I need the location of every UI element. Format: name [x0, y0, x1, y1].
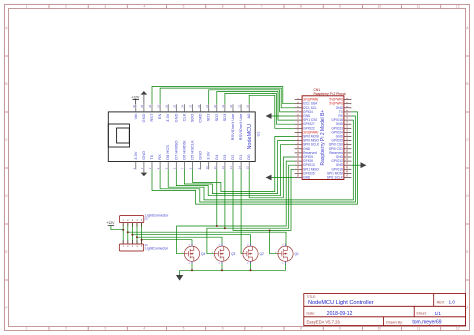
ground RPi pin9	[266, 113, 295, 119]
svg-text:RX: RX	[157, 154, 162, 160]
NodeMCU pin numbers	[132, 104, 249, 169]
svg-text:GND: GND	[173, 113, 178, 122]
svg-text:B: B	[466, 82, 468, 86]
wire NodeMCU D0 to RPi GPIO5	[249, 157, 294, 198]
svg-text:1: 1	[26, 5, 28, 9]
svg-text:Sheet:: Sheet:	[416, 312, 426, 316]
svg-text:SPI1 SCLK: SPI1 SCLK	[327, 176, 344, 180]
svg-text:D3: D3	[222, 154, 227, 160]
wire light connector pin5 vertical	[141, 223, 143, 244]
wire NodeMCU TX to RPi TX	[152, 112, 358, 204]
svg-text:D6 HMOSI: D6 HMOSI	[181, 140, 186, 159]
wire NodeMCU SD1 to RPi	[209, 90, 295, 112]
svg-text:17: 17	[237, 104, 241, 108]
svg-text:RST: RST	[149, 113, 154, 122]
svg-text:1: 1	[26, 327, 28, 331]
wire light connector pin4 vertical	[136, 223, 138, 244]
svg-text:22: 22	[197, 104, 201, 108]
svg-text:F: F	[6, 306, 8, 310]
svg-text:7: 7	[261, 5, 263, 9]
svg-text:U1: U1	[257, 132, 261, 137]
svg-text:B: B	[5, 82, 7, 86]
wire light connector pin1 vertical	[122, 223, 124, 244]
svg-text:Q4: Q4	[201, 252, 205, 256]
wire channel to Q4 drain	[128, 232, 286, 246]
junction light bus 4	[136, 236, 138, 238]
svg-text:4: 4	[143, 5, 145, 9]
Raspberry Pi connector CN1 body	[302, 96, 344, 180]
svg-text:RSV/Don't Use: RSV/Don't Use	[238, 113, 243, 141]
svg-text:16: 16	[245, 104, 249, 108]
svg-text:NodeMCU: NodeMCU	[247, 124, 253, 150]
wire NodeMCU A0 to RPi	[249, 95, 294, 128]
power +12V at NodeMCU Vin	[131, 96, 140, 105]
svg-text:25: 25	[173, 104, 177, 108]
wire light connector pin2 vertical	[127, 223, 129, 244]
title block text	[307, 295, 456, 326]
ground at NodeMCU pin2	[141, 170, 148, 177]
svg-text:6: 6	[222, 5, 224, 9]
wire source rail	[180, 269, 286, 271]
svg-text:18: 18	[229, 104, 233, 108]
svg-text:11: 11	[417, 327, 421, 331]
svg-text:9: 9	[339, 327, 341, 331]
light connector J1	[119, 240, 169, 251]
light connector J2	[119, 214, 169, 227]
wire NodeMCU SD3 to RPi	[225, 93, 295, 124]
svg-text:28: 28	[148, 104, 152, 108]
NodeMCU pins	[136, 104, 249, 169]
wire gate net D1 to Q3 gate	[241, 170, 243, 254]
junction rail	[250, 269, 252, 271]
junction gate D3	[224, 227, 226, 229]
svg-text:11: 11	[417, 5, 421, 9]
wire NodeMCU D6 to RPi SPI0 MISO	[184, 141, 294, 194]
svg-text:TX: TX	[149, 154, 154, 159]
svg-text:EasyEDA V5.7.26: EasyEDA V5.7.26	[307, 320, 341, 325]
wire rail to ground	[179, 270, 181, 275]
svg-text:SDO: SDO	[190, 114, 195, 123]
svg-text:Q3: Q3	[231, 252, 235, 256]
svg-text:REV:: REV:	[437, 300, 445, 304]
svg-text:Vin: Vin	[133, 114, 138, 120]
svg-text:D0: D0	[246, 154, 251, 160]
svg-text:RSV/Don't Use: RSV/Don't Use	[230, 113, 235, 141]
NodeMCU pin names	[133, 113, 251, 160]
wire Q1 source to rail	[191, 262, 193, 271]
svg-text:D2: D2	[230, 154, 235, 160]
svg-text:CLK: CLK	[181, 113, 186, 121]
svg-text:8: 8	[300, 327, 302, 331]
svg-text:3.3V: 3.3V	[206, 151, 211, 160]
svg-text:19: 19	[221, 104, 225, 108]
svg-text:8: 8	[300, 5, 302, 9]
svg-text:Drawn By:: Drawn By:	[386, 320, 403, 324]
junction light bus 1	[122, 229, 124, 231]
svg-text:12: 12	[456, 327, 460, 331]
wire channel to Q1 drain	[142, 240, 192, 246]
wire NodeMCU RST to RPi	[152, 86, 295, 104]
transistor Q2	[240, 243, 264, 265]
svg-text:1.0: 1.0	[449, 299, 456, 304]
junction light bus 3	[131, 234, 133, 236]
junction gate D4	[216, 225, 218, 227]
svg-text:13: 13	[229, 166, 233, 170]
svg-text:tom.meyer69: tom.meyer69	[412, 320, 441, 326]
ground symbol rail	[176, 275, 183, 281]
wire gate net D2 to Q4 gate	[233, 170, 278, 254]
svg-text:11: 11	[213, 166, 217, 169]
wire Q3 source to rail	[250, 262, 252, 271]
wire light connector pin3 vertical	[131, 223, 133, 244]
svg-text:3.3V: 3.3V	[165, 113, 170, 122]
svg-text:6: 6	[222, 327, 224, 331]
svg-text:LightConnector: LightConnector	[145, 246, 169, 250]
svg-text:10: 10	[378, 5, 382, 9]
junction rail	[221, 269, 223, 271]
svg-text:30: 30	[132, 104, 136, 108]
svg-text:Q1: Q1	[295, 252, 299, 256]
svg-text:D8 HCS: D8 HCS	[165, 145, 170, 160]
svg-text:9: 9	[339, 5, 341, 9]
svg-text:Q2: Q2	[260, 252, 264, 256]
svg-text:J2: J2	[144, 217, 148, 221]
junction light bus 5	[141, 239, 143, 241]
ground RPi pin39	[266, 175, 295, 181]
svg-text:27: 27	[156, 104, 160, 108]
svg-text:3.3V: 3.3V	[133, 151, 138, 160]
svg-text:14: 14	[237, 166, 241, 170]
svg-text:GND: GND	[141, 113, 146, 122]
svg-text:CMD: CMD	[198, 113, 203, 122]
svg-text:2: 2	[65, 327, 67, 331]
junction light bus 2	[127, 231, 129, 233]
wire NodeMCU D5 to RPi SPI0 MOSI	[193, 137, 295, 192]
svg-text:GND: GND	[303, 176, 311, 180]
svg-text:F: F	[467, 306, 469, 310]
svg-text:2018-09-12: 2018-09-12	[327, 311, 353, 317]
transistor Q3	[212, 243, 236, 265]
wire gate net D3 to Q2 gate	[207, 170, 225, 254]
svg-text:SD3: SD3	[222, 113, 227, 122]
svg-text:15: 15	[245, 166, 249, 170]
svg-text:GND: GND	[141, 151, 146, 160]
transistor Q1	[275, 243, 299, 265]
wire gate net D4 to Q1 gate	[177, 170, 217, 254]
svg-text:SD2: SD2	[214, 113, 219, 122]
wire NodeMCU EN to RPi	[160, 88, 295, 108]
svg-text:LightConnector: LightConnector	[145, 214, 169, 218]
svg-text:3: 3	[104, 5, 106, 9]
svg-text:GND: GND	[198, 151, 203, 160]
svg-text:29: 29	[140, 104, 144, 108]
wire NodeMCU D7 to RPi SPI0 SCLK	[176, 145, 294, 196]
svg-text:3: 3	[104, 327, 106, 331]
junction rail	[191, 269, 193, 271]
junction gate D2	[269, 229, 271, 231]
wire gate net D3 to RPi GPIO13	[225, 165, 295, 228]
wire gate net D2 to RPi SPI1 MISO	[270, 169, 295, 230]
svg-text:D7 HMISO: D7 HMISO	[173, 140, 178, 159]
svg-text:23: 23	[189, 104, 193, 108]
wire Q2 source to rail	[221, 262, 223, 271]
svg-text:10: 10	[378, 327, 382, 331]
title block	[304, 294, 466, 326]
svg-text:1/1: 1/1	[435, 311, 442, 316]
svg-text:7: 7	[261, 327, 263, 331]
power +12V at light connectors	[106, 221, 115, 225]
svg-text:20: 20	[213, 104, 217, 108]
svg-text:D4: D4	[214, 154, 219, 160]
NodeMCU U1 body	[108, 112, 255, 162]
svg-text:SD1: SD1	[206, 113, 211, 122]
svg-text:26: 26	[164, 104, 168, 108]
CN1 pin names	[303, 98, 344, 180]
wire channel to Q2 drain	[137, 237, 222, 246]
svg-text:Raspberry Pi 2 Model B+: Raspberry Pi 2 Model B+	[320, 110, 326, 166]
svg-text:D5 HSCLK: D5 HSCLK	[190, 140, 195, 160]
svg-text:E: E	[466, 250, 468, 254]
wire NodeMCU RX to RPi RX	[160, 116, 355, 202]
CN1 pins	[295, 100, 352, 178]
wire channel to Q3 drain	[132, 235, 250, 246]
svg-text:4: 4	[143, 327, 145, 331]
svg-text:NodeMCU Light Controller: NodeMCU Light Controller	[308, 300, 374, 306]
ground at NodeMCU pin29	[141, 91, 148, 104]
svg-text:24: 24	[181, 104, 185, 108]
svg-text:TITLE:: TITLE:	[307, 295, 317, 299]
svg-text:D1: D1	[238, 154, 243, 160]
svg-text:10: 10	[205, 166, 209, 170]
svg-text:A0: A0	[246, 113, 251, 119]
transistor Q4	[182, 243, 206, 265]
svg-text:Date:: Date:	[307, 312, 316, 316]
wire gate net D4 to RPi GPIO6	[217, 161, 295, 226]
svg-text:E: E	[5, 250, 7, 254]
wire +12V feed to connectors	[111, 226, 123, 230]
svg-text:5: 5	[183, 5, 185, 9]
ground RPi pin34	[351, 162, 366, 168]
svg-text:Raspberry Pi 2 Pinout: Raspberry Pi 2 Pinout	[314, 92, 346, 96]
wire NodeMCU SD2 to RPi	[217, 92, 295, 121]
svg-text:+12V: +12V	[106, 221, 115, 225]
svg-text:5: 5	[183, 327, 185, 331]
svg-text:+12V: +12V	[131, 96, 140, 100]
svg-text:EN: EN	[157, 113, 162, 119]
svg-text:12: 12	[221, 166, 225, 170]
svg-text:12: 12	[456, 5, 460, 9]
svg-text:21: 21	[205, 104, 209, 108]
wire NodeMCU D8 to RPi GPIO18	[168, 120, 353, 200]
svg-text:2: 2	[65, 5, 67, 9]
wire Q4 source to rail	[285, 262, 287, 271]
CN1 pin numbers	[297, 97, 349, 177]
